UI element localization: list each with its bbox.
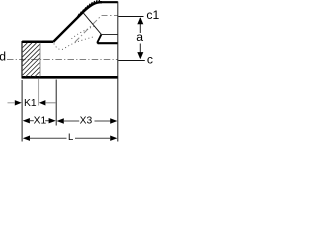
arrow a down — [137, 52, 143, 59]
bottom edge — [22, 76, 118, 79]
hidden bore curve lower — [54, 37, 93, 50]
X1 shaft left — [29, 120, 33, 122]
svg-text:K1: K1 — [24, 98, 37, 109]
serration ticks on branch — [78, 0, 100, 17]
extension line right face lower — [117, 79, 119, 142]
dimension a line upper — [139, 18, 141, 33]
L arrow right — [110, 136, 117, 141]
extension line socket depth — [38, 79, 40, 106]
hatch block — [23, 43, 40, 77]
svg-text:X1: X1 — [34, 116, 47, 127]
socket outer thin line — [101, 33, 118, 35]
K1 right shaft — [46, 102, 56, 104]
svg-text:L: L — [68, 132, 73, 143]
svg-text:d: d — [0, 50, 6, 64]
c leader line — [118, 60, 145, 62]
X1 arrow left — [23, 118, 30, 123]
K1 left shaft — [8, 102, 15, 104]
extension line axis point — [55, 80, 57, 126]
socket shoulder thick line — [98, 42, 118, 44]
body outline left face — [21, 41, 23, 79]
socket shoulder wedge — [98, 35, 102, 44]
X3 shaft left — [63, 120, 79, 122]
hidden bore curve upper — [72, 26, 96, 39]
svg-text:c1: c1 — [146, 8, 159, 22]
extension line left face — [21, 80, 23, 142]
arrow a up — [137, 17, 143, 24]
socket shoulder thin diagonal — [83, 13, 101, 35]
branch outer diagonal — [53, 2, 102, 42]
L arrow left — [23, 136, 30, 141]
X3 arrow left — [57, 118, 64, 123]
L shaft right — [75, 137, 110, 139]
X3 arrow right — [110, 118, 117, 123]
svg-text:X3: X3 — [80, 116, 93, 127]
dimension a line lower — [139, 44, 141, 59]
top horizontal edge — [100, 1, 118, 3]
X1 shaft right — [45, 120, 49, 122]
X1 arrow right — [49, 118, 56, 123]
svg-text:c: c — [147, 53, 153, 67]
K1 right arrow — [39, 100, 46, 105]
hatch right boundary — [39, 43, 41, 76]
c1 leader line — [118, 16, 143, 18]
main centerline — [7, 59, 118, 61]
K1 left arrow — [15, 100, 22, 105]
L shaft left — [30, 137, 67, 139]
right face line — [117, 2, 119, 80]
branch centerline — [75, 16, 118, 43]
svg-text:a: a — [136, 30, 143, 44]
top edge — [22, 41, 53, 43]
X3 shaft right — [95, 120, 111, 122]
